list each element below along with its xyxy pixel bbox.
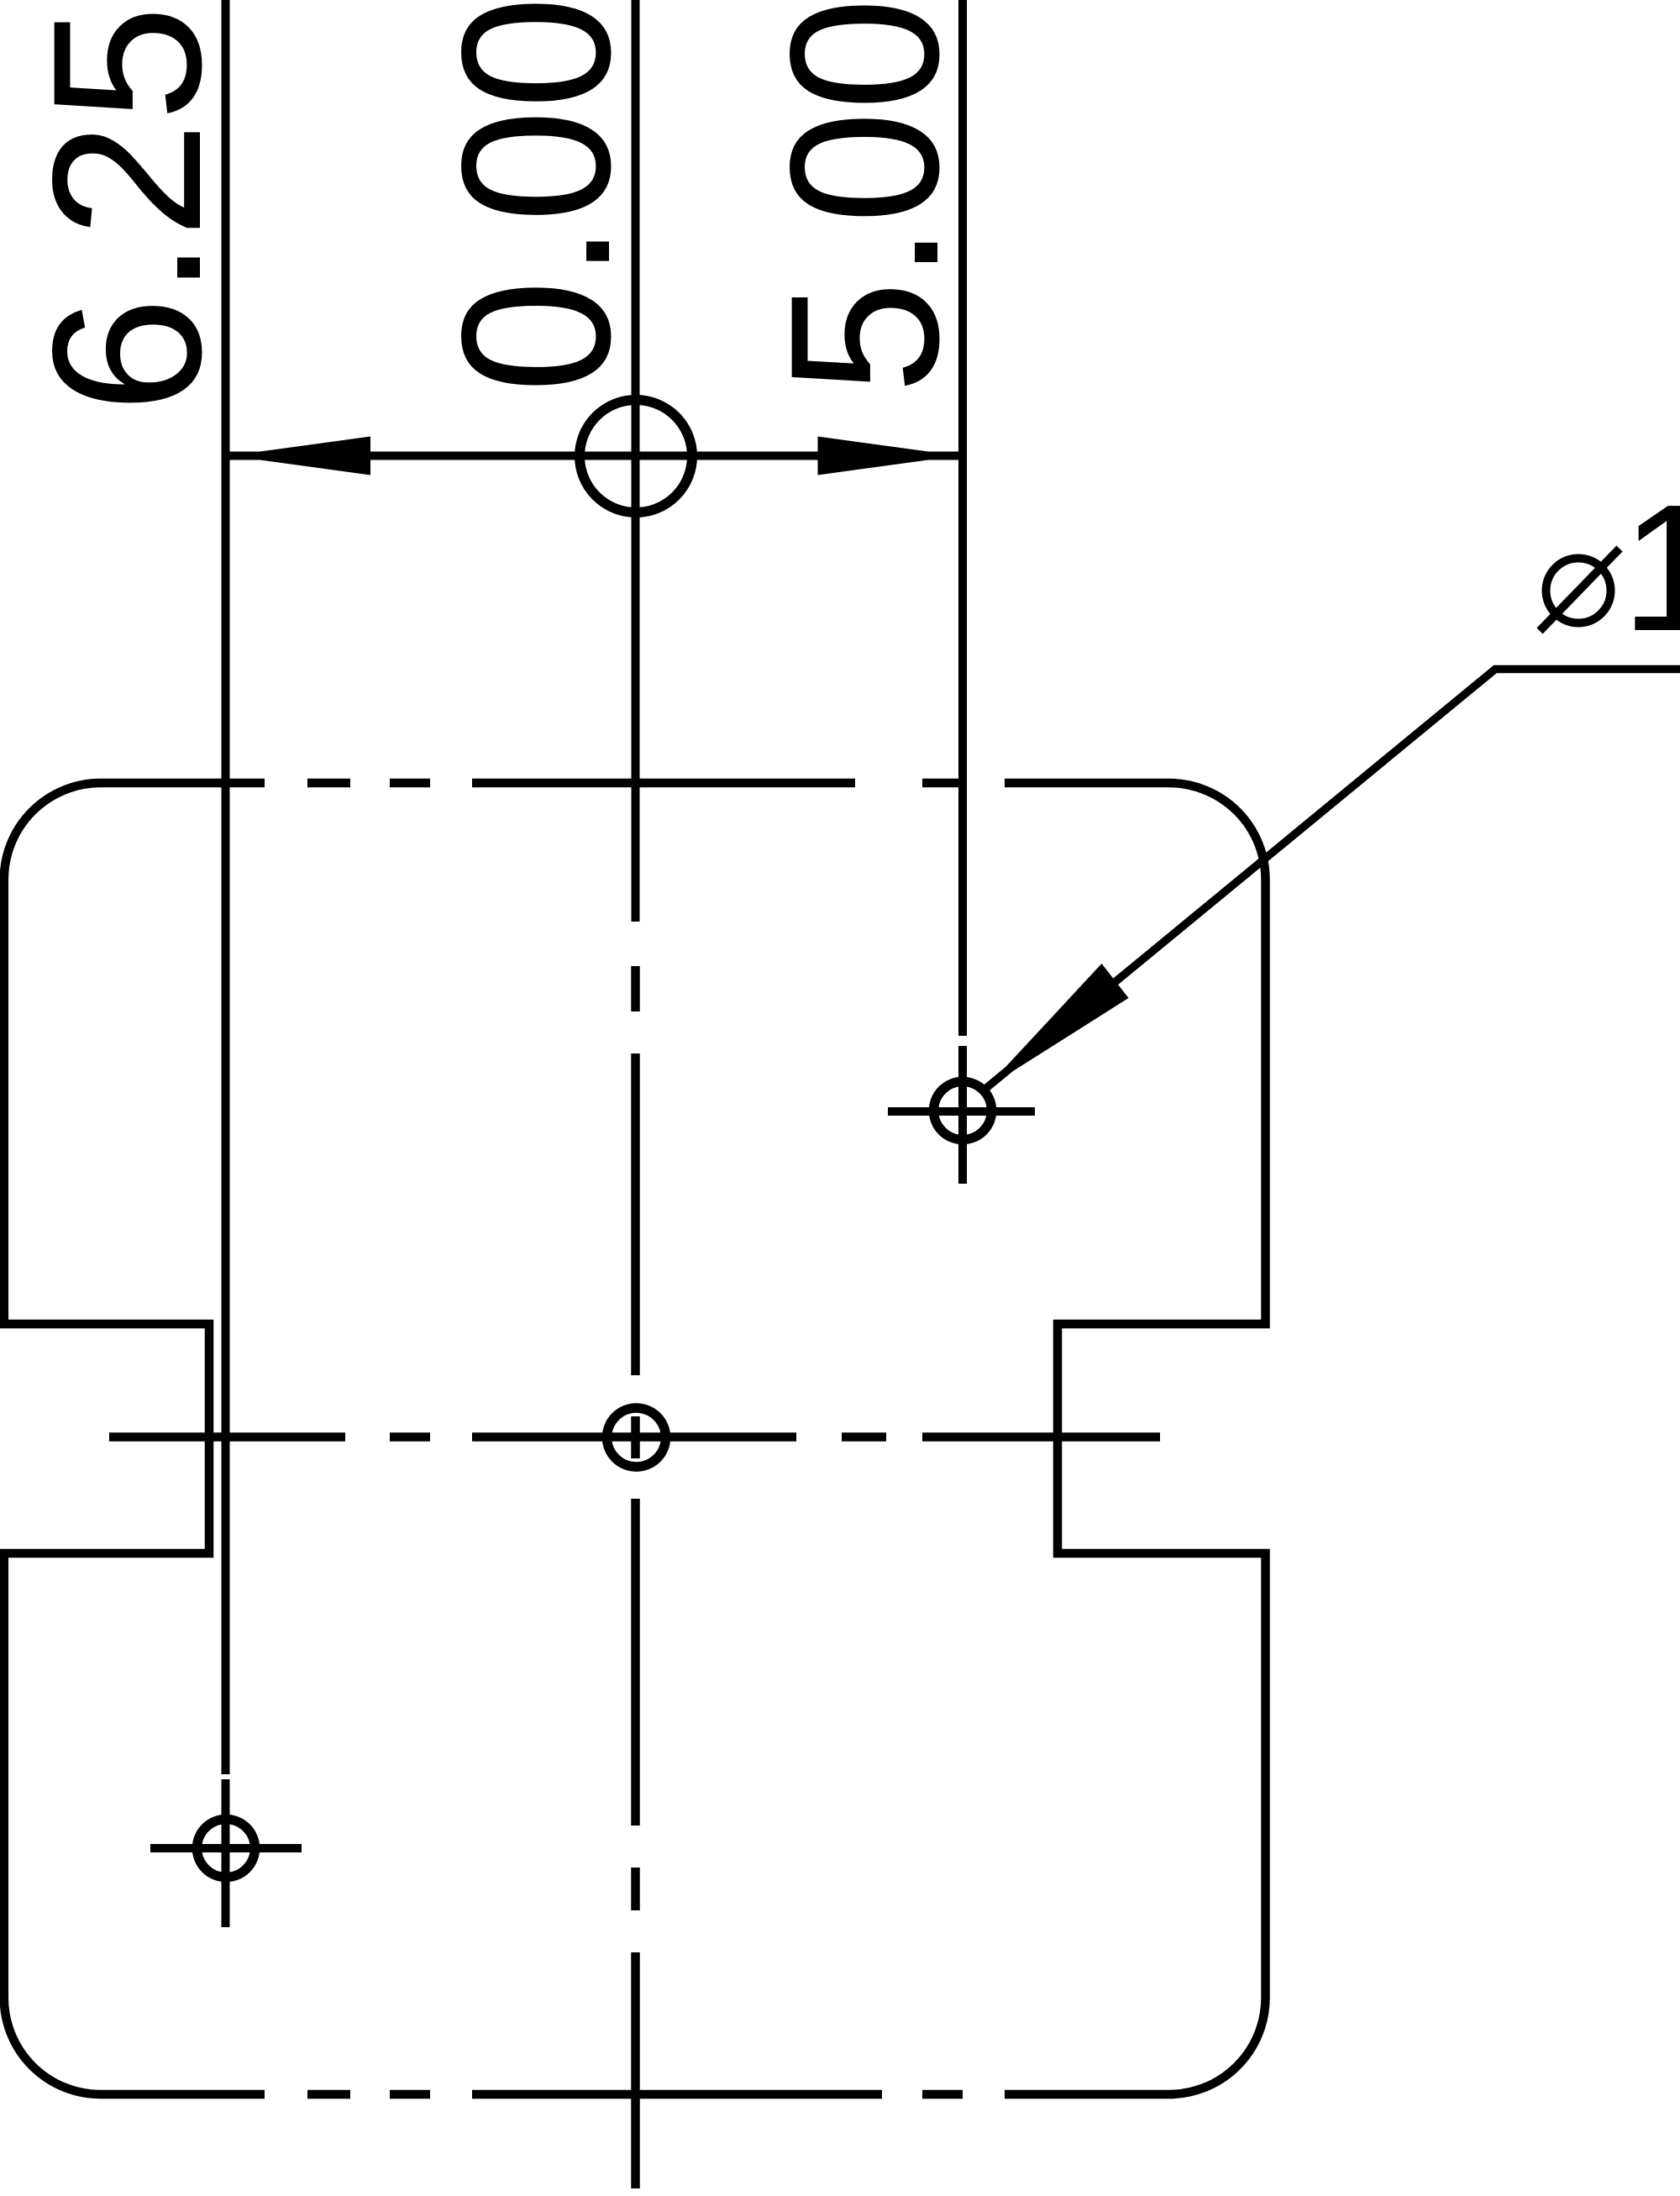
diameter symbol of leader label xyxy=(1546,559,1611,623)
arrowhead right xyxy=(818,437,959,475)
svg-text:5.00: 5.00 xyxy=(747,0,983,394)
origin circle xyxy=(580,400,692,512)
leader arrowhead xyxy=(986,964,1129,1089)
arrowhead left xyxy=(229,437,370,475)
vertical centerline xyxy=(631,966,640,2188)
hole upper-right xyxy=(934,1082,992,1140)
part outline top edge (phantom dashes) xyxy=(4,783,1266,880)
svg-text:1: 1 xyxy=(1621,466,1680,669)
part outline left side with notch xyxy=(4,880,209,1998)
horizontal centerline xyxy=(109,1432,1160,1442)
dimension line xyxy=(226,452,963,460)
svg-text:0.00: 0.00 xyxy=(418,0,654,393)
extension line 0.00 xyxy=(632,0,640,922)
part outline bottom edge (phantom dashes) xyxy=(4,1998,1266,2094)
part outline right side with notch xyxy=(1058,880,1266,1998)
extension line 6.25 xyxy=(222,0,230,1927)
hole upper-right crosshair xyxy=(888,1107,1035,1116)
svg-text:6.25: 6.25 xyxy=(9,5,245,413)
extension line 5.00 xyxy=(958,0,967,1184)
hole bottom-left crosshair xyxy=(150,1844,302,1852)
hole bottom-left xyxy=(197,1820,255,1878)
hole center xyxy=(607,1408,666,1467)
leader line xyxy=(985,670,1680,1090)
